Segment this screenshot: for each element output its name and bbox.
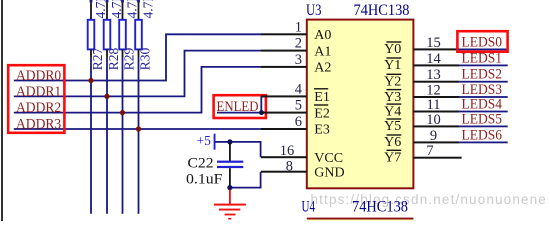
svg-text:R27: R27 xyxy=(90,48,105,71)
svg-text:4: 4 xyxy=(295,81,303,97)
watermark xyxy=(311,192,547,207)
pin 13 (Y2) xyxy=(384,67,459,89)
svg-text:4.7K: 4.7K xyxy=(140,0,155,19)
svg-text:E1: E1 xyxy=(314,90,330,105)
junction dot ADDR1 xyxy=(104,94,109,99)
svg-text:Y3: Y3 xyxy=(384,90,401,105)
svg-text:R30: R30 xyxy=(137,48,152,71)
svg-text:R28: R28 xyxy=(106,48,121,71)
svg-text:R29: R29 xyxy=(121,48,136,71)
pin 3 (A2) xyxy=(261,52,331,76)
svg-text:4.7K: 4.7K xyxy=(124,0,139,19)
svg-text:9: 9 xyxy=(430,128,437,144)
wire C22 to pin 8 GND xyxy=(230,172,261,188)
wire ADDR0 to pin 1 xyxy=(14,34,261,80)
pin 14 (Y1) xyxy=(384,51,459,73)
wire ADDR3 to pin 6 xyxy=(14,128,261,130)
svg-text:U4: U4 xyxy=(302,199,316,216)
pin 9 (Y6) xyxy=(384,128,459,150)
svg-text:5: 5 xyxy=(295,98,302,114)
svg-text:Y1: Y1 xyxy=(384,58,401,73)
svg-text:14: 14 xyxy=(426,51,441,67)
junction dot ADDR3 xyxy=(136,126,141,131)
svg-text:VCC: VCC xyxy=(314,151,343,166)
power +5 xyxy=(197,133,230,150)
svg-text:ADDR2: ADDR2 xyxy=(16,100,61,116)
svg-text:2: 2 xyxy=(295,36,302,52)
label R28 xyxy=(106,48,121,71)
svg-text:3: 3 xyxy=(295,52,302,68)
capacitor C22 xyxy=(217,142,243,188)
svg-text:0.1uF: 0.1uF xyxy=(186,172,223,188)
pin 2 (A1) xyxy=(261,36,331,60)
resistor R27 xyxy=(88,0,95,58)
svg-text:U3: U3 xyxy=(306,2,322,19)
wire ADDR2 to pin 3 xyxy=(14,67,261,113)
wire LEDS5 xyxy=(459,126,508,128)
pin 15 (Y0) xyxy=(384,35,459,57)
svg-text:ADDR0: ADDR0 xyxy=(16,68,61,84)
junction dot E1/E2 xyxy=(259,110,264,115)
svg-text:GND: GND xyxy=(314,165,344,180)
pin 8 (GND) xyxy=(261,159,345,181)
pin 1 (A0) xyxy=(261,19,331,43)
wire column R27 down xyxy=(90,58,92,214)
pin 4 (E1) xyxy=(261,81,330,105)
net label ADDR1 xyxy=(16,84,61,100)
label R30 xyxy=(137,48,152,71)
svg-text:6: 6 xyxy=(295,114,302,130)
resistor R29 xyxy=(119,0,126,58)
svg-text:LEDS0: LEDS0 xyxy=(462,34,503,50)
IC U4 body top edge xyxy=(307,218,414,221)
label C22 xyxy=(188,155,214,171)
wire +5 to pin 16 VCC xyxy=(230,142,261,157)
value 4.7K (R30) xyxy=(140,0,155,19)
wire LEDS4 xyxy=(459,111,508,113)
svg-text:4.7K: 4.7K xyxy=(109,0,124,19)
ground xyxy=(214,190,246,220)
svg-text:11: 11 xyxy=(427,97,441,113)
svg-text:15: 15 xyxy=(426,35,441,51)
svg-text:13: 13 xyxy=(426,67,441,83)
resistor R30 xyxy=(135,0,142,58)
highlight box ADDR xyxy=(8,65,64,133)
svg-text:A2: A2 xyxy=(314,61,331,76)
net label LEDS5 xyxy=(462,111,503,127)
value 0.1uF xyxy=(186,172,223,188)
net label LEDS2 xyxy=(462,67,503,83)
svg-text:Y7: Y7 xyxy=(384,151,401,166)
value 74HC138 xyxy=(354,2,410,19)
sheet border xyxy=(1,0,3,221)
svg-text:LEDS5: LEDS5 xyxy=(462,111,503,127)
junction dot ADDR0 xyxy=(88,78,93,83)
svg-text:Y0: Y0 xyxy=(384,42,401,57)
svg-text:7: 7 xyxy=(426,143,433,159)
svg-text:16: 16 xyxy=(280,143,295,159)
designator U3 xyxy=(306,2,322,19)
junction dot ADDR2 xyxy=(120,110,125,115)
svg-text:E2: E2 xyxy=(314,106,330,121)
svg-text:A0: A0 xyxy=(314,28,331,43)
value 4.7K (R27) xyxy=(93,0,108,19)
svg-text:LEDS6: LEDS6 xyxy=(462,127,503,143)
wire column R29 down xyxy=(122,58,124,214)
net label ADDR3 xyxy=(16,117,61,133)
op-amp: IC U3 74HC138 body xyxy=(307,20,414,189)
svg-text:8: 8 xyxy=(286,159,293,175)
svg-text:ENLED: ENLED xyxy=(217,99,259,115)
junction dot C22/GND xyxy=(227,185,232,190)
wire LEDS1 xyxy=(459,65,508,67)
net label ADDR0 xyxy=(16,68,61,84)
svg-text:4.7K: 4.7K xyxy=(93,0,108,19)
svg-text:Y6: Y6 xyxy=(384,135,401,150)
wire column R28 down xyxy=(106,58,108,214)
pin 7 (Y7) xyxy=(384,143,461,165)
svg-text:A1: A1 xyxy=(314,44,331,59)
wire LEDS3 xyxy=(459,96,508,98)
value 4.7K (R28) xyxy=(109,0,124,19)
svg-text:Y5: Y5 xyxy=(384,119,401,134)
pin 12 (Y3) xyxy=(384,82,459,104)
net label LEDS4 xyxy=(462,97,503,113)
pin 5 (E2) xyxy=(261,98,330,122)
svg-text:74HC138: 74HC138 xyxy=(354,2,410,19)
net label LEDS0 xyxy=(462,34,503,50)
svg-text:74HC138: 74HC138 xyxy=(352,199,408,216)
label R29 xyxy=(121,48,136,71)
highlight box ENLED xyxy=(214,95,266,118)
net label LEDS3 xyxy=(462,82,503,98)
svg-text:LEDS2: LEDS2 xyxy=(462,67,503,83)
wire ADDR1 to pin 2 xyxy=(14,51,261,97)
svg-text:Y2: Y2 xyxy=(384,75,401,90)
wire pin 4 (E1) tie to pin 5 xyxy=(260,96,262,112)
wire LEDS6 xyxy=(459,142,508,144)
junction dot +5/C22 xyxy=(227,139,232,144)
value 4.7K (R29) xyxy=(124,0,139,19)
svg-text:ADDR1: ADDR1 xyxy=(16,84,61,100)
svg-text:ADDR3: ADDR3 xyxy=(16,117,61,133)
pin 11 (Y4) xyxy=(384,97,459,119)
designator U4 xyxy=(302,199,316,216)
wire ENLED to pin 5 xyxy=(217,112,261,114)
svg-text:https://blog.csdn.net/nuonuone: https://blog.csdn.net/nuonuonene xyxy=(311,192,547,207)
wire column R30 down xyxy=(138,58,140,214)
pin 6 (E3) xyxy=(261,114,330,138)
wire LEDS2 xyxy=(459,81,508,83)
label R27 xyxy=(90,48,105,71)
value 74HC138 (U4) xyxy=(352,199,408,216)
wire LEDS0 xyxy=(459,49,508,51)
svg-text:E3: E3 xyxy=(314,123,330,138)
highlight box LEDS0 xyxy=(457,31,507,52)
pin 16 (VCC) xyxy=(261,143,343,166)
svg-text:LEDS4: LEDS4 xyxy=(462,97,503,113)
svg-text:C22: C22 xyxy=(188,155,214,171)
net label ENLED xyxy=(217,99,259,115)
svg-text:Y4: Y4 xyxy=(384,104,401,119)
pin 10 (Y5) xyxy=(384,112,459,134)
svg-text:10: 10 xyxy=(426,112,441,128)
svg-text:1: 1 xyxy=(295,19,302,35)
svg-text:+5: +5 xyxy=(197,133,212,148)
net label LEDS1 xyxy=(462,50,503,66)
net label ADDR2 xyxy=(16,100,61,116)
net label LEDS6 xyxy=(462,127,503,143)
resistor R28 xyxy=(104,0,111,58)
